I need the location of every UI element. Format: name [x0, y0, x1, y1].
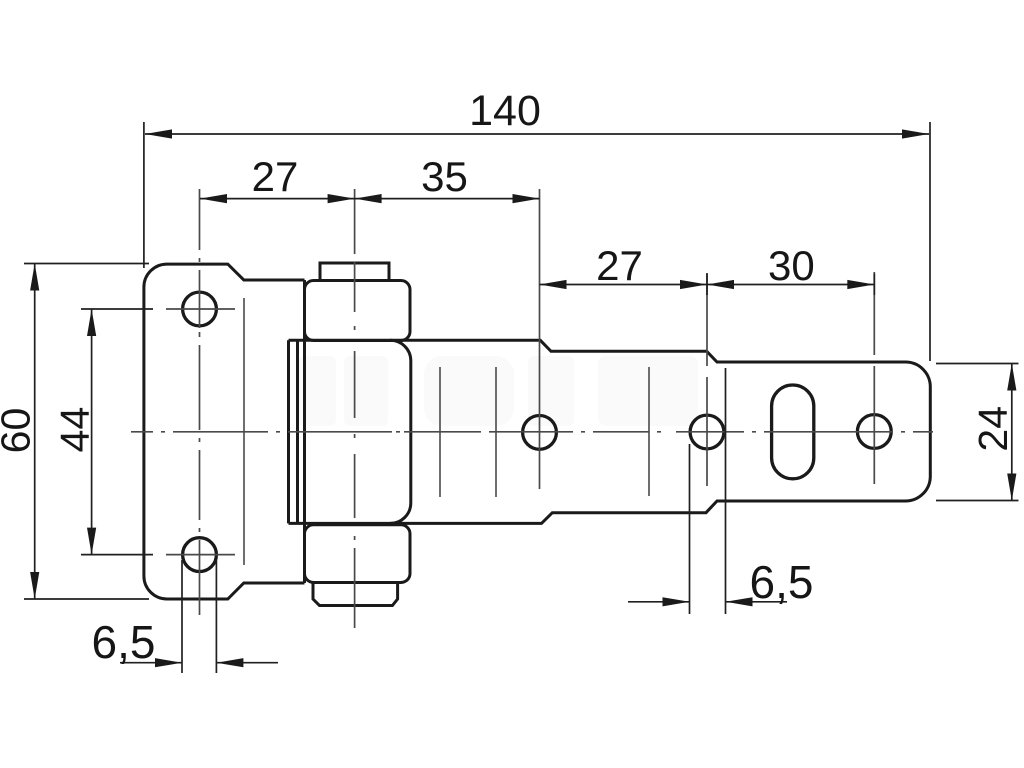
arrow 60 up	[30, 264, 39, 291]
ext line 24 bottom	[936, 500, 1019, 502]
sleeve inner edge	[296, 340, 299, 523]
strap hole 3 centerline	[873, 272, 875, 484]
svg-text:44: 44	[52, 407, 98, 453]
arrow 24 up	[1007, 364, 1016, 391]
arrow 140 right	[902, 129, 929, 138]
ext line 6,5 left b	[215, 560, 217, 673]
dim line 6,5 right outer b	[726, 601, 788, 603]
arrow 27 right right	[680, 280, 707, 289]
arrow 6,5 right a	[663, 597, 690, 606]
plate-to-barrel junction line	[303, 280, 306, 583]
pin end bottom	[313, 583, 398, 606]
plate holes centerline	[199, 189, 201, 615]
strap bend line b	[495, 367, 497, 497]
arrow 27 top right	[328, 194, 355, 203]
ext line 60 bottom	[24, 598, 149, 600]
svg-text:24: 24	[970, 406, 1016, 452]
pin axis centerline	[354, 189, 356, 628]
strap leaf outline	[289, 340, 931, 523]
mounting plate outline	[144, 264, 305, 599]
strap hole 3	[857, 415, 891, 449]
dim line 140	[145, 133, 929, 135]
top knuckle collar	[305, 281, 411, 341]
ext line 140 left	[143, 122, 145, 268]
ext line 6,5 left a	[181, 560, 183, 673]
arrow 27 top left	[200, 194, 227, 203]
svg-text:35: 35	[421, 153, 468, 200]
ext line 44 bottom	[81, 554, 153, 556]
arrow 24 down	[1007, 474, 1016, 501]
ext line 24 top	[936, 363, 1019, 365]
ext line hole3	[873, 274, 875, 296]
dim line 24	[1011, 364, 1013, 501]
strap bend line a	[439, 367, 441, 497]
dim line 27/30 right	[540, 284, 875, 286]
dim line 44	[91, 309, 93, 555]
dim line 27/35 top	[200, 198, 540, 200]
arrow 6,5 right b	[726, 597, 753, 606]
arrow 30 right	[847, 280, 874, 289]
svg-text:27: 27	[252, 153, 299, 200]
ext line 140 right	[929, 122, 931, 361]
arrow 27 right left	[540, 280, 567, 289]
dim line 6,5 left outer b	[216, 662, 278, 664]
arrow 6,5 left a	[155, 658, 182, 667]
arrow 44 up	[87, 309, 96, 336]
ext line 6,5 right a	[689, 444, 691, 614]
plate hole top	[183, 292, 217, 326]
arrow 35 left	[355, 194, 382, 203]
ext line hole2	[706, 274, 708, 296]
horizontal center axis	[131, 431, 933, 433]
bottom knuckle collar	[305, 525, 411, 583]
strap hole 1 centerline	[539, 189, 541, 489]
arrow 44 down	[87, 528, 96, 555]
strap hole 2	[690, 415, 724, 449]
plate hole bottom	[183, 538, 217, 572]
strap hole 2 centerline	[706, 273, 708, 486]
strap bend line c	[648, 367, 650, 496]
ext line 6,5 right b	[725, 368, 727, 614]
slot hole	[772, 385, 814, 479]
arrow 140 left	[145, 129, 172, 138]
pin head top	[320, 263, 389, 281]
sleeve right edge with fillets	[390, 340, 411, 523]
strap hole 1	[523, 416, 557, 450]
svg-text:140: 140	[469, 87, 541, 135]
ext line 60 top	[24, 263, 149, 265]
arrow 6,5 left b	[216, 658, 243, 667]
svg-text:6,5: 6,5	[92, 616, 156, 668]
sleeve curl outer edge	[287, 340, 290, 523]
arrow 35 right	[513, 194, 540, 203]
svg-text:27: 27	[596, 242, 643, 289]
ext line 44 top	[81, 308, 153, 310]
dim line 6,5 right outer a	[628, 601, 690, 603]
arrow 60 down	[30, 572, 39, 599]
arrow 30 left	[707, 280, 734, 289]
svg-text:30: 30	[768, 242, 815, 289]
watermark	[298, 356, 698, 426]
dim line 6,5 left outer a	[120, 662, 182, 664]
svg-text:60: 60	[0, 408, 39, 454]
plate hole crosshairs	[166, 309, 235, 555]
plate chamfer tangent line	[243, 298, 245, 565]
dim line 60	[34, 264, 36, 600]
svg-text:6,5: 6,5	[750, 556, 814, 608]
